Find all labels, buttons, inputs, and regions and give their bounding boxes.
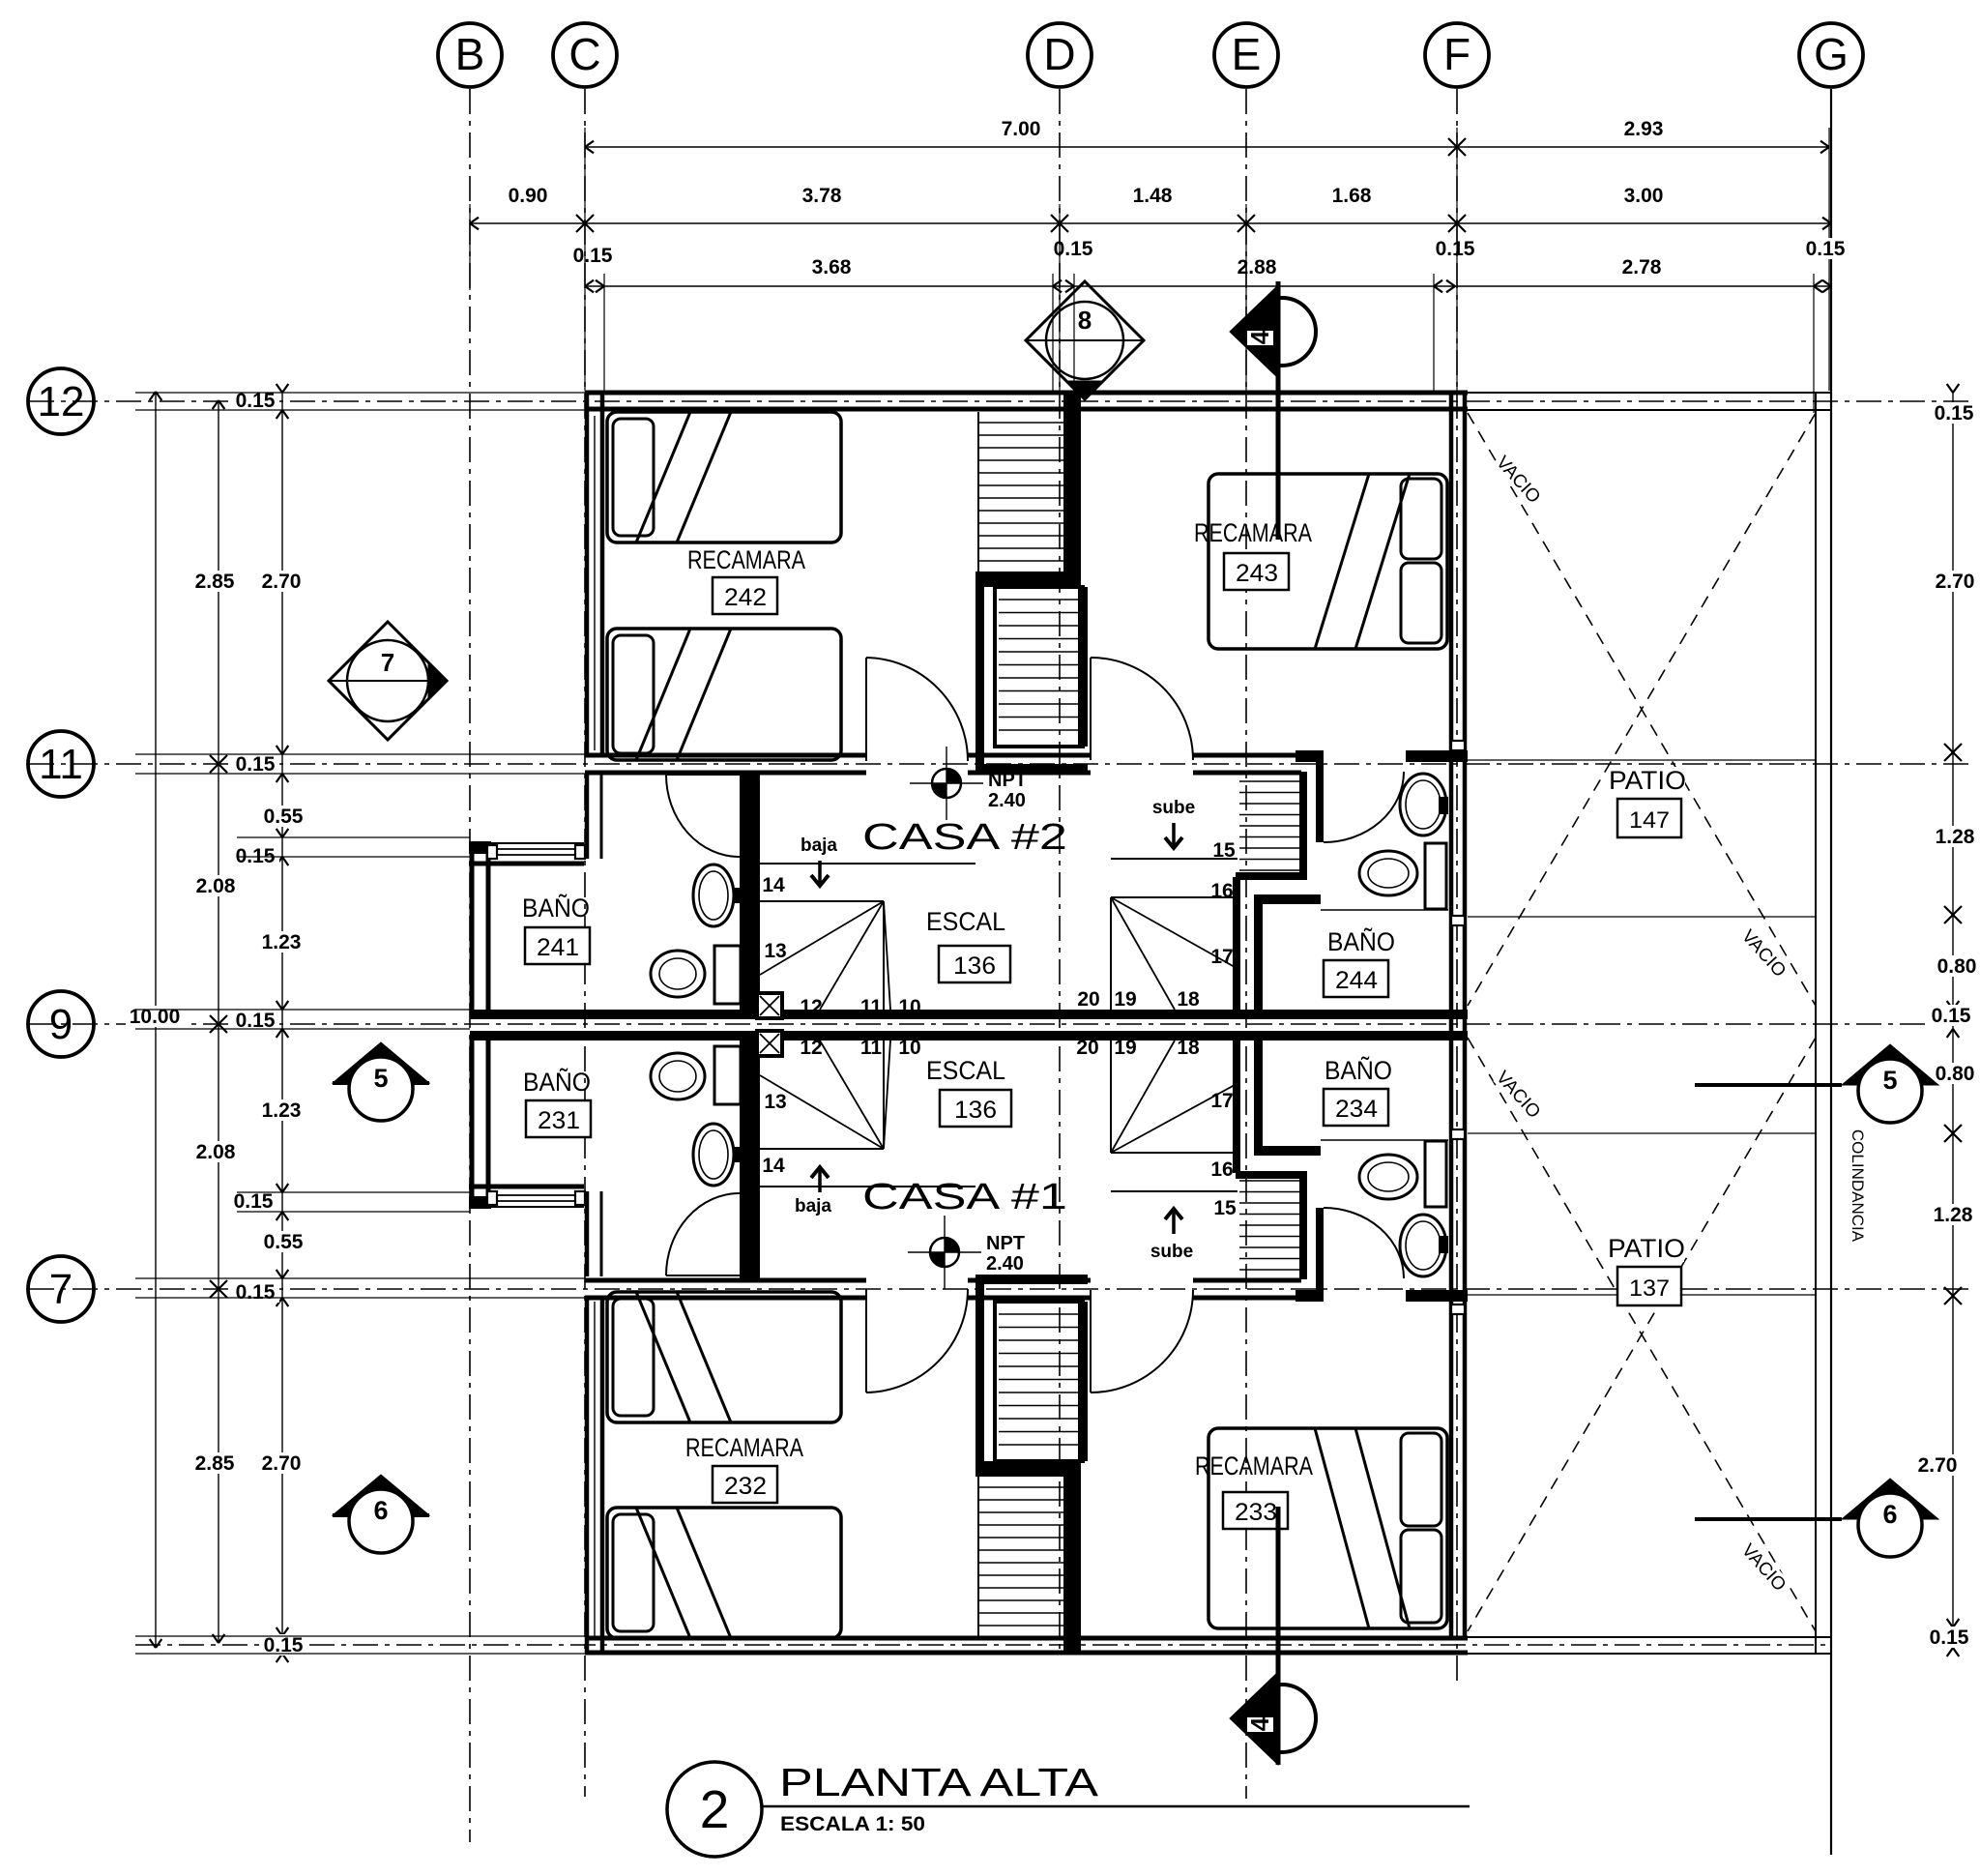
bottom wall axis line	[135, 1644, 1831, 1646]
marker section 5 right	[1695, 1083, 1842, 1087]
toilet bath244	[1425, 843, 1446, 909]
svg-text:0.90: 0.90	[509, 185, 548, 207]
toilet bath234	[1425, 1141, 1446, 1207]
bed recamara242 a	[607, 412, 841, 542]
toilet bath241	[714, 946, 741, 1004]
grid line 9	[29, 1023, 1974, 1025]
grid bubble D	[1028, 23, 1092, 87]
svg-text:2.08: 2.08	[196, 875, 236, 897]
dim line 7.00/2.93	[585, 146, 1829, 148]
svg-text:RECAMARA: RECAMARA	[1194, 518, 1312, 547]
svg-text:3.78: 3.78	[802, 185, 842, 207]
sink bath244	[1400, 774, 1446, 835]
svg-text:2.85: 2.85	[195, 1452, 235, 1475]
label patio 147	[1610, 767, 1685, 794]
svg-text:2.70: 2.70	[1936, 571, 1975, 593]
svg-text:244: 244	[1335, 967, 1378, 994]
svg-text:136: 136	[953, 953, 996, 980]
marker section 4 top	[1276, 281, 1281, 540]
door recamara 243	[1090, 658, 1092, 760]
bath241 top wall	[469, 841, 491, 854]
door bath244	[1324, 772, 1404, 842]
svg-text:2.85: 2.85	[195, 571, 235, 593]
grid bubble 11	[28, 731, 94, 797]
wall bottom patio boundary	[1468, 1636, 1831, 1638]
shaft casa1 mid wall	[975, 1461, 1065, 1477]
svg-text:233: 233	[1235, 1499, 1277, 1526]
wall bath234 top b	[1406, 1290, 1468, 1302]
shaft casa1 top wall	[975, 1275, 1088, 1284]
svg-text:8: 8	[1078, 306, 1092, 335]
svg-text:0.80: 0.80	[1937, 955, 1977, 978]
svg-text:PATIO: PATIO	[1609, 766, 1686, 795]
grid line 12	[29, 400, 1974, 402]
svg-text:13: 13	[764, 1091, 786, 1113]
grid bubble 7	[28, 1256, 94, 1322]
svg-text:1.23: 1.23	[262, 931, 302, 953]
wall junction square	[1451, 916, 1465, 925]
door bath234	[1324, 1208, 1404, 1278]
bath231 hall stub wall	[585, 1191, 590, 1276]
svg-text:14: 14	[762, 874, 785, 896]
svg-text:CASA #1: CASA #1	[862, 1177, 1067, 1217]
grid line E	[1245, 89, 1247, 1799]
svg-text:17: 17	[1210, 1090, 1233, 1112]
grid bubble F	[1425, 23, 1489, 87]
door bath241	[666, 774, 740, 776]
marker section 6 right	[1695, 1517, 1842, 1521]
marker section 6 left	[333, 1513, 429, 1517]
svg-text:4: 4	[1245, 330, 1274, 344]
wall bath234 top a	[1296, 1290, 1324, 1302]
npt symbol casa1	[908, 1251, 981, 1253]
grid line C	[584, 89, 586, 1797]
stair winder casa1 right	[1111, 1190, 1237, 1192]
stair flight casa1 upper	[995, 1302, 1083, 1461]
svg-text:1.23: 1.23	[262, 1099, 302, 1122]
svg-text:baja: baja	[795, 1196, 831, 1216]
marker diamond 7	[329, 622, 447, 740]
patio 147 X	[1468, 413, 1816, 1006]
svg-text:19: 19	[1114, 988, 1136, 1011]
door recamara 232	[865, 1289, 867, 1392]
dim chain 10.00	[155, 392, 157, 1648]
ext lines rows left	[135, 392, 585, 394]
column xbox casa1	[757, 1031, 782, 1056]
bath231 left wall	[470, 1039, 475, 1207]
stair flight casa2 upper	[977, 412, 979, 572]
shaft casa2 mid wall	[975, 572, 1065, 587]
dim chain 2.70/0.55/1.23	[281, 393, 283, 1654]
bath231 bottom wall	[469, 1196, 491, 1209]
svg-text:0.15: 0.15	[1930, 1627, 1969, 1649]
shaft casa2 right wall	[1063, 391, 1081, 587]
svg-text:2.08: 2.08	[196, 1141, 236, 1163]
wall left exterior C	[585, 391, 590, 754]
svg-text:0.15: 0.15	[1054, 238, 1093, 260]
wall bath244 top a	[1296, 750, 1324, 762]
svg-text:12: 12	[800, 1037, 822, 1059]
svg-text:C: C	[568, 29, 600, 79]
svg-text:ESCALA 1: 50: ESCALA 1: 50	[780, 1813, 925, 1835]
dim chain right 2.70/1.28/0.80	[1952, 393, 1954, 1648]
stair right flight casa2 treads	[1239, 780, 1299, 782]
grid bubble B	[438, 23, 502, 87]
svg-text:14: 14	[762, 1155, 785, 1177]
wall bottom exterior	[585, 1636, 1468, 1641]
svg-text:15: 15	[1213, 1197, 1237, 1219]
wall right exterior F	[1449, 391, 1454, 1638]
svg-text:147: 147	[1629, 807, 1670, 834]
ext lines patio	[1468, 759, 1816, 761]
shaft casa2 left wall	[975, 573, 984, 764]
stair flight casa2 lower	[995, 587, 1083, 747]
svg-text:0.15: 0.15	[234, 1190, 274, 1213]
stair right flight casa1 walls	[1236, 1171, 1303, 1179]
svg-text:0.15: 0.15	[1935, 402, 1974, 425]
grid line D	[1059, 89, 1061, 1649]
shaft casa1 left wall	[975, 1284, 984, 1475]
svg-text:RECAMARA: RECAMARA	[687, 545, 805, 574]
svg-text:12: 12	[38, 378, 85, 425]
svg-text:20: 20	[1077, 988, 1099, 1011]
stair right flight casa1 treads	[1239, 1180, 1299, 1182]
lot line right	[1815, 392, 1817, 1655]
svg-text:18: 18	[1177, 988, 1200, 1011]
svg-text:11: 11	[860, 996, 883, 1018]
bath231 window	[491, 1194, 580, 1196]
column xbox casa2	[757, 993, 782, 1018]
svg-text:2.88: 2.88	[1237, 256, 1277, 278]
stair winder casa2 left	[760, 863, 975, 865]
svg-text:231: 231	[538, 1107, 580, 1134]
svg-text:0.55: 0.55	[264, 806, 304, 828]
npt symbol casa2	[910, 782, 983, 784]
wall row7 segment c	[1193, 1278, 1301, 1283]
stair right flight casa2 walls	[1236, 872, 1303, 880]
party wall casa1	[470, 1031, 1468, 1041]
bed recamara243	[1208, 474, 1447, 649]
bath241 window	[491, 848, 580, 850]
svg-text:RECAMARA: RECAMARA	[685, 1433, 803, 1462]
vacio text 1	[1493, 453, 1543, 505]
svg-text:2.93: 2.93	[1624, 118, 1664, 140]
svg-text:20: 20	[1076, 1037, 1098, 1059]
stair winder casa2 right	[1111, 858, 1237, 860]
bath234 jamb wall	[1316, 1208, 1324, 1290]
bed recamara232 b	[607, 1508, 841, 1638]
svg-text:NPT: NPT	[988, 770, 1027, 791]
wall junction square	[1451, 741, 1465, 750]
svg-text:PLANTA ALTA: PLANTA ALTA	[779, 1760, 1099, 1804]
svg-text:BAÑO: BAÑO	[522, 893, 590, 923]
svg-text:0.15: 0.15	[573, 245, 613, 267]
vacio text 2	[1738, 926, 1789, 979]
bath234 left wall	[1254, 1041, 1263, 1156]
svg-text:2.40: 2.40	[986, 1253, 1024, 1275]
wall row11 segment b	[968, 753, 1091, 758]
shaft casa1 right wall	[1063, 1461, 1081, 1653]
wall row11 segment c	[1193, 753, 1301, 758]
svg-text:baja: baja	[801, 835, 837, 856]
svg-text:136: 136	[954, 1097, 997, 1124]
svg-text:17: 17	[1210, 946, 1233, 968]
svg-text:4: 4	[1245, 1716, 1274, 1731]
shaft casa2 right wall2	[1078, 587, 1088, 747]
dim line 3.68/2.88/2.78	[585, 285, 1831, 287]
svg-text:3.00: 3.00	[1624, 185, 1664, 207]
svg-text:BAÑO: BAÑO	[1327, 926, 1395, 956]
wall junction square	[1451, 1129, 1465, 1139]
wall left exterior below row7	[585, 1298, 590, 1653]
patio 137 X	[1468, 1038, 1816, 1631]
svg-text:2.70: 2.70	[262, 571, 302, 593]
vacio text 4	[1738, 1540, 1789, 1593]
sink bath234	[1400, 1215, 1446, 1276]
title line	[762, 1805, 1470, 1808]
party wall casa2	[470, 1010, 1468, 1019]
toilet bath231	[714, 1046, 741, 1104]
wall top patio boundary	[1468, 392, 1831, 394]
grid line G colindancia	[1830, 89, 1832, 1855]
marker diamond 8	[1026, 281, 1144, 399]
grid line 7	[29, 1288, 1974, 1290]
door bath231	[666, 1275, 740, 1276]
bath244 nook line	[1321, 909, 1448, 911]
grid bubble 12	[28, 368, 94, 434]
sink bath231	[693, 1124, 734, 1186]
shaft casa1 right wall2	[1078, 1302, 1088, 1461]
bed recamara232 a	[607, 1292, 841, 1422]
hall wall casa2	[740, 772, 760, 1010]
svg-text:1.48: 1.48	[1133, 185, 1173, 207]
marker section 4 bottom	[1276, 1507, 1281, 1765]
label patio 137	[1609, 1235, 1684, 1262]
svg-text:CASA #2: CASA #2	[862, 817, 1067, 858]
svg-text:F: F	[1443, 29, 1470, 79]
marker section 5 left	[333, 1081, 429, 1085]
svg-text:9: 9	[49, 1001, 73, 1048]
svg-text:11: 11	[860, 1037, 883, 1059]
wall bath244 top b	[1406, 750, 1468, 762]
stair winder casa1 left	[760, 1186, 975, 1187]
bath241 hall stub wall	[585, 774, 590, 859]
svg-text:234: 234	[1335, 1096, 1378, 1123]
svg-text:12: 12	[800, 996, 822, 1018]
svg-text:137: 137	[1629, 1275, 1670, 1302]
svg-text:D: D	[1043, 29, 1075, 79]
svg-text:2: 2	[700, 1779, 730, 1839]
svg-text:0.15: 0.15	[1806, 238, 1846, 260]
svg-text:0.15: 0.15	[236, 1281, 276, 1304]
grid line F	[1456, 89, 1458, 1687]
svg-text:0.15: 0.15	[1436, 238, 1475, 260]
svg-text:1.28: 1.28	[1936, 826, 1975, 848]
wall row7 segment b	[968, 1278, 1091, 1283]
wall junction square	[1451, 1304, 1465, 1314]
svg-text:242: 242	[724, 584, 767, 611]
svg-text:5: 5	[373, 1064, 388, 1093]
svg-text:16: 16	[1210, 880, 1233, 902]
wall row7 segment a	[585, 1278, 866, 1283]
svg-text:2.40: 2.40	[988, 790, 1026, 811]
grid bubble E	[1214, 23, 1278, 87]
svg-text:7: 7	[381, 648, 394, 677]
svg-text:B: B	[455, 29, 485, 79]
hall wall casa1	[740, 1041, 760, 1278]
bath244 jamb wall	[1316, 760, 1324, 842]
svg-text:0.15: 0.15	[1932, 1005, 1971, 1027]
svg-text:sube: sube	[1150, 1242, 1193, 1262]
grid bubble G	[1799, 23, 1863, 87]
svg-text:2.70: 2.70	[1918, 1454, 1958, 1477]
svg-text:6: 6	[373, 1496, 388, 1525]
svg-text:11: 11	[39, 741, 83, 788]
shaft casa2 bottom wall	[975, 764, 1088, 774]
svg-text:10: 10	[898, 1037, 920, 1059]
svg-text:0.80: 0.80	[1936, 1063, 1975, 1085]
svg-text:ESCAL: ESCAL	[926, 907, 1005, 936]
svg-text:COLINDANCIA: COLINDANCIA	[1849, 1129, 1867, 1243]
svg-text:19: 19	[1114, 1037, 1136, 1059]
bed recamara233	[1208, 1428, 1447, 1628]
wall top exterior	[585, 391, 1468, 396]
grid line B	[469, 89, 471, 1842]
svg-text:10: 10	[898, 996, 920, 1018]
svg-text:6: 6	[1882, 1500, 1897, 1529]
bath241 left wall	[470, 843, 475, 1011]
svg-text:7: 7	[49, 1266, 73, 1313]
stair flight casa1 lower	[977, 1477, 979, 1636]
svg-text:BAÑO: BAÑO	[523, 1067, 591, 1097]
bath234 nook line	[1321, 1139, 1448, 1141]
svg-text:16: 16	[1210, 1158, 1233, 1181]
svg-text:PATIO: PATIO	[1608, 1234, 1685, 1263]
grid bubble C	[553, 23, 617, 87]
svg-text:1.68: 1.68	[1332, 185, 1372, 207]
svg-text:BAÑO: BAÑO	[1325, 1055, 1392, 1085]
svg-text:3.68: 3.68	[812, 256, 852, 278]
svg-text:18: 18	[1177, 1037, 1200, 1059]
svg-text:0.15: 0.15	[236, 753, 276, 776]
svg-text:243: 243	[1236, 560, 1278, 587]
door recamara 233	[1090, 1290, 1092, 1392]
door recamara 242	[865, 658, 867, 761]
dim line 0.90/3.78/1.48/1.68/3.00	[470, 222, 1831, 224]
svg-text:sube: sube	[1152, 798, 1195, 818]
svg-text:E: E	[1232, 29, 1262, 79]
grid bubble 9	[28, 991, 94, 1057]
svg-text:7.00: 7.00	[1002, 118, 1041, 140]
svg-text:2.78: 2.78	[1622, 256, 1662, 278]
svg-text:G: G	[1814, 29, 1849, 79]
svg-text:1.28: 1.28	[1934, 1204, 1973, 1226]
grid line 11	[29, 763, 1974, 765]
dim chain 2.85/2.08	[218, 400, 219, 1643]
svg-text:241: 241	[537, 934, 579, 961]
svg-text:13: 13	[764, 940, 786, 962]
svg-text:5: 5	[1882, 1066, 1897, 1095]
wall row11 segment a	[585, 753, 866, 758]
svg-text:RECAMARA: RECAMARA	[1195, 1451, 1313, 1480]
svg-text:ESCAL: ESCAL	[926, 1056, 1005, 1085]
bed recamara242 b	[607, 629, 841, 760]
svg-text:232: 232	[724, 1473, 767, 1500]
svg-text:2.70: 2.70	[262, 1452, 302, 1475]
vacio text 3	[1493, 1068, 1543, 1120]
svg-text:15: 15	[1212, 839, 1236, 862]
title bubble 2	[667, 1762, 762, 1857]
sink bath241	[693, 865, 734, 926]
svg-text:0.55: 0.55	[264, 1231, 304, 1253]
svg-text:NPT: NPT	[986, 1233, 1025, 1254]
bath244 left wall	[1254, 894, 1263, 1010]
